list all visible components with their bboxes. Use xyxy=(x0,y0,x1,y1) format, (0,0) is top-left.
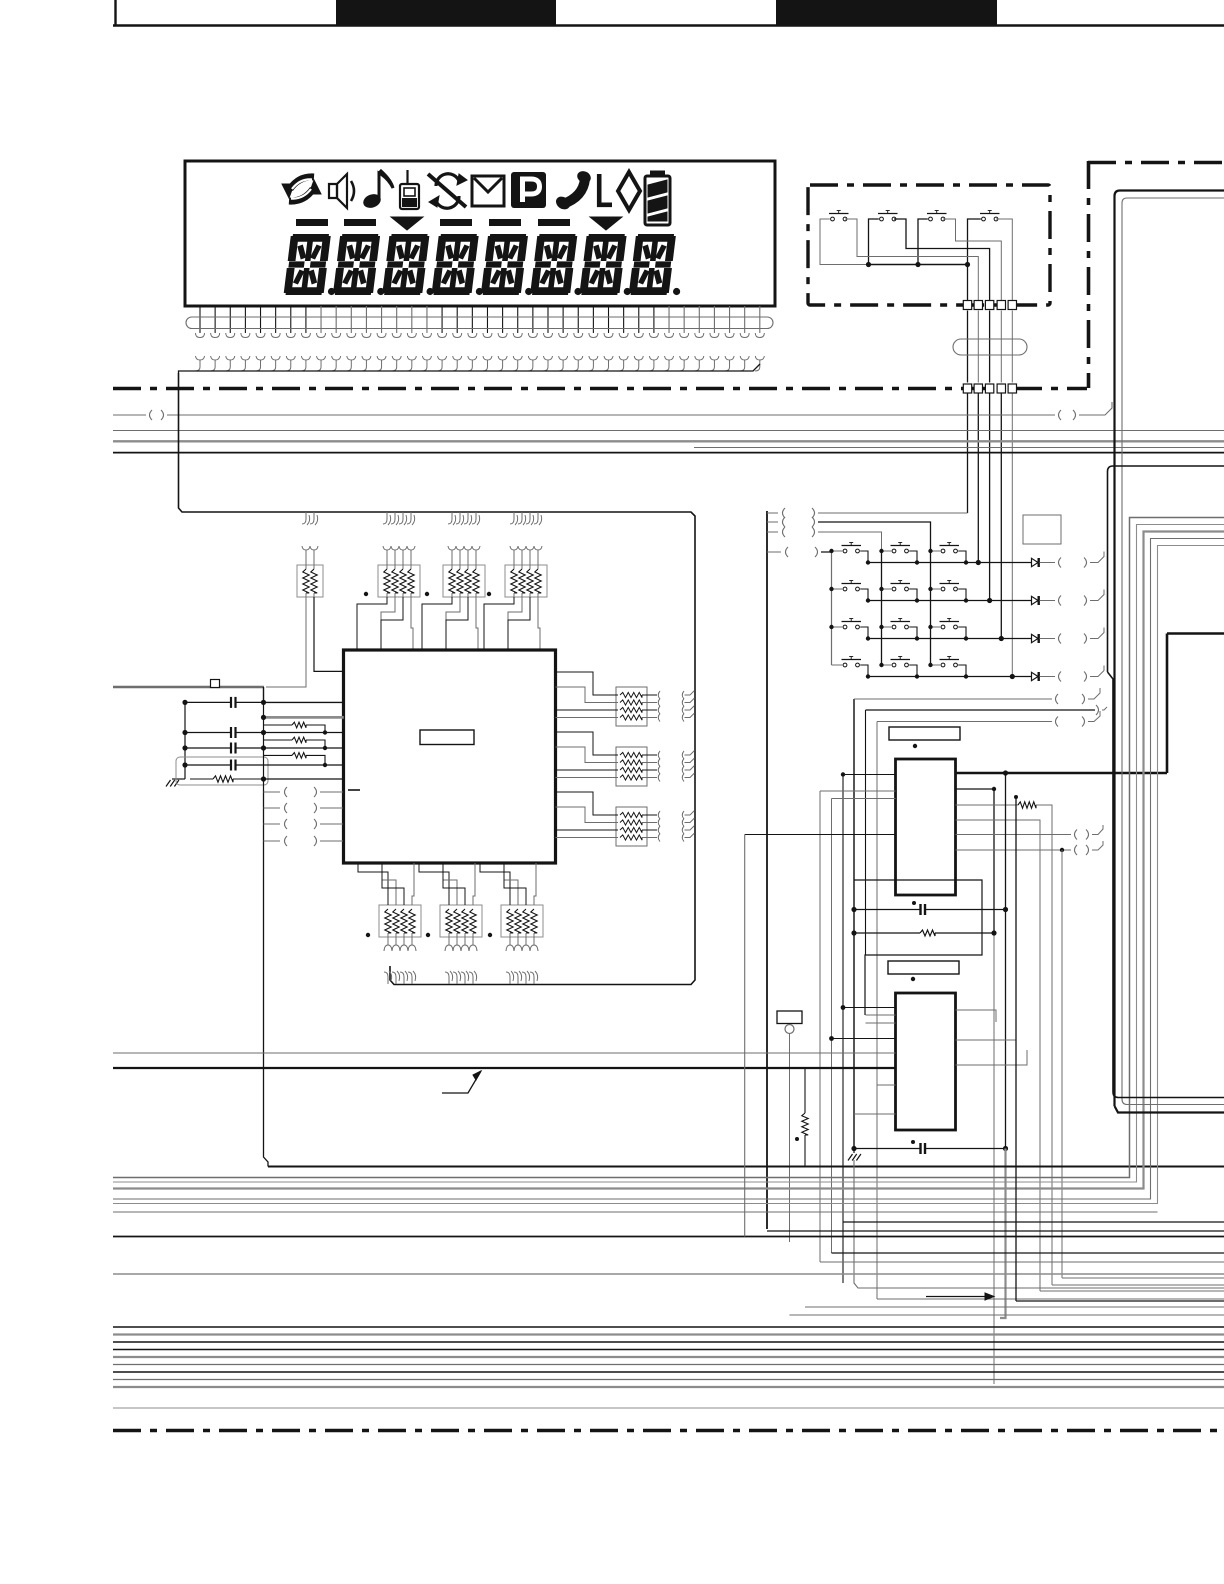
LCD icon: battery xyxy=(645,176,670,225)
capacitor C5 under U2 xyxy=(854,909,921,911)
matrix left bus xyxy=(831,551,833,665)
column feed rail xyxy=(766,511,768,1229)
U2 right pin 1 (heavy) to right block xyxy=(956,772,1168,775)
capacitor C2 row xyxy=(185,732,231,734)
IC U2 left pin wires xyxy=(842,775,844,1284)
bus wire y1167 (heavy) xyxy=(268,1166,1224,1168)
wire S3 left drop xyxy=(918,219,928,265)
bus single y1408 xyxy=(113,1407,1224,1409)
matrix switch row 4 xyxy=(843,663,847,667)
IC U1 pin stub xyxy=(348,789,360,791)
LCD icon: telephone handset xyxy=(563,179,585,204)
fork receptacles above RA3 xyxy=(448,546,456,550)
ground GND2 xyxy=(853,1149,855,1154)
diode D4 xyxy=(1032,672,1039,680)
resistor R6 under U2 xyxy=(854,932,920,934)
connector hooks group 3 xyxy=(448,512,452,524)
fork receptacles above RA1 xyxy=(302,546,310,550)
wire S4 right to column xyxy=(996,219,1012,300)
ferrite bead FB1 xyxy=(211,680,220,688)
oscillator feed wire 2 (heavy gray) xyxy=(264,716,344,719)
RC filter box xyxy=(176,757,268,785)
right connector block outer box xyxy=(1115,191,1224,1113)
LCD icon: diamond xyxy=(618,172,640,210)
signal wire B xyxy=(865,710,867,955)
keypad wires to matrix xyxy=(967,394,969,514)
fork receptacles below RA5 xyxy=(384,945,392,951)
common bus wire xyxy=(868,264,968,266)
U3 right pin stubs xyxy=(956,1010,997,1022)
vertical below C6 junction xyxy=(1000,1149,1006,1319)
matrix switch row 3 xyxy=(843,625,847,629)
bus wire 5 (dark) xyxy=(113,452,1224,454)
module boundary (dash-dot) vertical right xyxy=(1087,161,1091,388)
full-width wire y1274 xyxy=(113,1273,1224,1275)
capacitor C1 row xyxy=(185,701,231,703)
right verticals bends xyxy=(1062,1277,1224,1279)
U2 right pin 5 xyxy=(956,834,1072,836)
matrix row 2 output wire xyxy=(868,600,1031,602)
U2 right pin 2 xyxy=(956,789,995,933)
fork receptacles above RA2 xyxy=(383,546,391,550)
U2 right pin 6 xyxy=(956,849,1072,851)
resistor R1 in box xyxy=(190,778,213,780)
title block cell 1 (redacted black) xyxy=(336,0,556,25)
wire bend x767 xyxy=(767,1230,1224,1232)
module boundary (dash-dot) bottom xyxy=(113,1429,1224,1433)
IC U2 label box xyxy=(889,727,960,740)
board-side connector forks xyxy=(196,356,205,360)
diode D3 xyxy=(1032,634,1039,642)
title block bottom rule xyxy=(113,24,1224,27)
ground GND1 xyxy=(172,778,185,780)
resistor array RA9 xyxy=(616,747,647,786)
wires RA1 down xyxy=(266,597,306,687)
oscillator feed wire 1 xyxy=(264,701,344,703)
vertical from U2 pin1 junction xyxy=(1005,773,1007,1149)
resistor array RA8 xyxy=(616,687,647,726)
left rail to ground xyxy=(184,702,186,779)
wire bend x805 xyxy=(805,1306,1224,1308)
rail stub 4 xyxy=(767,551,781,553)
microcontroller IC U1 xyxy=(344,650,556,863)
full-width wire y1236 (heavy) xyxy=(113,1236,1224,1238)
resistor R3 xyxy=(264,739,293,741)
rail stub 2 xyxy=(767,521,778,523)
supply feed wire (heavy) xyxy=(113,686,264,689)
matrix row 4 output wire xyxy=(868,676,1031,678)
wire bend x789 xyxy=(790,1314,1224,1316)
LCD cursor dashes and triangles xyxy=(296,219,328,226)
module boundary (dash-dot) top right xyxy=(1088,161,1224,165)
hooks on bottom wire xyxy=(384,972,388,984)
LCD icon: musical note xyxy=(361,192,382,210)
wire to column 3 xyxy=(812,517,815,527)
bus wire with inline connector xyxy=(113,414,146,416)
wire to row bus xyxy=(815,547,818,557)
wire S4 left drop xyxy=(968,219,981,265)
matrix column 3 line xyxy=(930,551,932,665)
wire S1 left to common bus xyxy=(820,219,868,265)
LCD icon: letter L xyxy=(599,174,612,205)
resistor R2 xyxy=(264,724,293,726)
resistor array RA4 xyxy=(505,565,547,597)
right connector block inner box xyxy=(1122,198,1224,1105)
ladder line row4 to IC xyxy=(264,764,344,766)
inline connectors to IC left xyxy=(264,791,281,793)
signal wire A xyxy=(853,699,855,1149)
wire bend x843 xyxy=(843,1221,1224,1223)
LCD icon: recycle arrows xyxy=(290,177,314,189)
IC U2 xyxy=(896,759,956,895)
resistor R4 xyxy=(264,754,293,756)
IC U3 label box xyxy=(888,961,959,974)
rail stub 1 xyxy=(767,512,778,514)
switch S1 xyxy=(831,217,835,221)
C-bus 1 xyxy=(113,518,1224,1178)
matrix row 1 output wire xyxy=(868,562,1031,564)
connector hooks group 4 xyxy=(510,512,514,524)
resistor array RA6 xyxy=(440,905,482,937)
bus into U3 pin (thin) xyxy=(113,1052,896,1054)
resistor array RA7 xyxy=(501,905,543,937)
wire loop around LCD driver section xyxy=(179,373,696,985)
connector pads at keypad boundary xyxy=(963,301,971,310)
keypad block boundary (dash-dot) xyxy=(808,185,1050,305)
resistor array RA10 xyxy=(616,807,647,846)
wire common down xyxy=(967,265,969,301)
connector rail xyxy=(179,364,761,373)
resistor array RA5 xyxy=(379,905,421,937)
title block cell 2 (redacted black) xyxy=(776,0,997,25)
staircase wire x877 xyxy=(877,1298,1224,1300)
bus wire 2 xyxy=(113,430,1224,432)
wire S2 right to column xyxy=(894,219,990,300)
C-bus 4 xyxy=(113,539,1224,1200)
pin sockets under zebra connector xyxy=(196,333,205,338)
ladder line row3 to IC xyxy=(264,747,344,749)
LCD icon: speaker xyxy=(329,184,337,198)
LCD icon: no-ring circular arrows with slash xyxy=(436,174,459,186)
switch S3 xyxy=(929,217,933,221)
fork receptacles above RA4 xyxy=(510,546,518,550)
LCD zebra connector pins xyxy=(199,306,201,333)
resistor array RA2 xyxy=(378,565,420,597)
module boundary (dash-dot) horizontal xyxy=(113,387,1087,391)
switch S4 xyxy=(982,217,986,221)
bus wire 4 xyxy=(694,447,1224,449)
matrix column 2 line xyxy=(881,551,883,665)
resistor array RA3 xyxy=(443,565,485,597)
connector CN (left of U3) xyxy=(777,1011,802,1024)
annotation arrow 1 xyxy=(442,1071,481,1093)
right block B outline xyxy=(1108,466,1224,1098)
annotation arrow 2 xyxy=(926,1296,988,1298)
U2 right pin 3 via resistor R5 xyxy=(956,804,1019,806)
matrix output junction dots xyxy=(976,560,981,565)
wire S1 right to column xyxy=(845,219,978,300)
wire from box edge to U2 pin xyxy=(745,834,896,836)
IC U3 xyxy=(896,993,956,1130)
rail stub 3 xyxy=(767,531,778,533)
wire to column 2 xyxy=(812,527,815,537)
wire S3 right to column xyxy=(943,219,1001,300)
U3 left pin wires 2 xyxy=(866,1014,896,1016)
wire bend x831 xyxy=(832,1252,1224,1254)
C-bus 5 xyxy=(113,546,1224,1204)
matrix row 3 output wire xyxy=(868,638,1031,640)
decoupling loop wires U2 xyxy=(854,880,982,1015)
LCD icon: envelope xyxy=(472,176,504,206)
bus bundle xyxy=(113,1326,1224,1328)
U3 left pin wires xyxy=(843,1007,896,1009)
LCD icon: portable phone xyxy=(406,170,408,184)
LCD display outline xyxy=(185,161,775,306)
C-bus 2 xyxy=(113,525,1224,1183)
wires RA2-RA4 to IC xyxy=(357,597,387,650)
title block border xyxy=(114,0,116,26)
spare connector box xyxy=(1023,515,1061,544)
vertical rail down left xyxy=(263,687,265,790)
zebra elastomer connector body xyxy=(186,317,773,329)
capacitor C3 row xyxy=(185,747,231,749)
connector hooks group 1 xyxy=(302,512,306,524)
switch S2 xyxy=(880,217,884,221)
capacitor C6 under U3 xyxy=(854,1148,921,1150)
junction dots near RA5-RA7 xyxy=(366,933,370,937)
connector hooks group 2 xyxy=(383,512,387,524)
bus into U3 pin (heavy) xyxy=(113,1067,896,1069)
LCD icon: P in box xyxy=(511,172,546,208)
wire bend down xyxy=(263,687,265,702)
rail continues to bottom bus xyxy=(264,790,269,1167)
matrix switch row 1 xyxy=(843,549,847,553)
right block feed vertical (heavy) xyxy=(1166,634,1169,774)
U2 right pin 4 xyxy=(956,820,1041,1291)
IC U1 part label box xyxy=(420,730,474,745)
connector pads at module boundary xyxy=(963,384,971,393)
junction dots near resistor arrays xyxy=(364,592,368,596)
capacitor C4 xyxy=(185,764,231,766)
wire to keypad common xyxy=(812,508,815,518)
matrix switch row 2 xyxy=(843,587,847,591)
wire S2 left drop xyxy=(869,219,879,265)
keypad wires through connector xyxy=(967,311,969,383)
ladder line row5 to IC xyxy=(264,778,344,780)
diode D1 xyxy=(1032,558,1039,566)
C-bus 6 xyxy=(113,1211,1158,1213)
resistor R7 (vertical) xyxy=(804,1068,806,1113)
C-bus 3 xyxy=(113,532,1224,1189)
ladder line row2 to IC xyxy=(264,732,344,734)
bus wire 3 (heavy gray) xyxy=(113,440,1224,442)
resistor array RA1 xyxy=(297,565,323,597)
keypad flex connector xyxy=(953,339,1027,355)
wire bend x820 xyxy=(820,1261,1224,1263)
staircase wire x866 xyxy=(854,1160,1224,1288)
signal wire C xyxy=(876,722,878,1300)
diode D2 xyxy=(1032,596,1039,604)
